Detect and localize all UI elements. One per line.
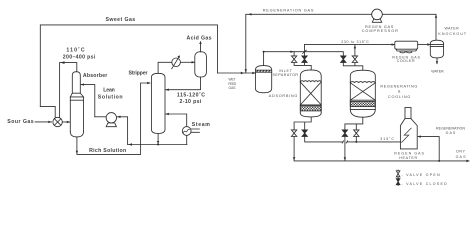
svg-text:HEATER: HEATER: [399, 156, 417, 160]
wire pump suction: [117, 116, 128, 145]
node steam label: [192, 122, 210, 128]
node hot header label: [341, 39, 369, 44]
svg-text:Sour Gas: Sour Gas: [7, 119, 33, 125]
node absorber label: [83, 73, 107, 79]
node 315C label: [380, 136, 394, 141]
valve V-1C open: [291, 130, 296, 137]
svg-text:KNOCKOUT: KNOCKOUT: [438, 32, 466, 36]
regen gas heater H1: [400, 107, 417, 148]
wire pump discharge: [95, 116, 106, 118]
svg-text:COOLING: COOLING: [388, 95, 411, 99]
svg-text:- VALVE OPEN: - VALVE OPEN: [402, 173, 440, 177]
node acid gas label: [187, 35, 212, 41]
valve V-1A open: [291, 56, 296, 63]
wire absorber overhead: [60, 61, 77, 117]
acid gas drum: [195, 52, 207, 77]
compressor K1: [372, 9, 383, 22]
node regeneration gas right label: [436, 127, 465, 135]
svg-text:Sweet Gas: Sweet Gas: [106, 17, 136, 23]
legend valve open symbol: [396, 170, 400, 178]
node adsorbing label: [269, 94, 298, 98]
node sour gas label: [7, 119, 33, 125]
wire sweet gas top line: [40, 25, 217, 107]
wire hot header riser tower1: [303, 45, 307, 56]
valve V-1D closed: [302, 130, 307, 137]
mixer: [53, 117, 62, 126]
wire rich solution line: [77, 82, 151, 155]
condenser E1: [172, 55, 181, 68]
wire regeneration gas recycle: [245, 13, 438, 73]
svg-text:Lean: Lean: [103, 88, 115, 94]
wire reboiler return: [165, 113, 186, 127]
pump P1: [106, 113, 116, 127]
valve V-2A closed: [341, 56, 346, 63]
wire condenser to acid gas drum: [180, 61, 194, 63]
wire tower1 bottom manifold: [294, 117, 311, 130]
wire mixer to absorber: [62, 121, 70, 123]
node compressor label: [362, 25, 398, 33]
wire dry gas line: [294, 160, 470, 163]
wire wet feed gas line: [218, 72, 256, 74]
svg-text:GAS: GAS: [456, 155, 466, 159]
svg-text:200–400 psi: 200–400 psi: [63, 54, 96, 60]
svg-text:REGENERATION GAS: REGENERATION GAS: [263, 9, 314, 13]
svg-text:GAS: GAS: [446, 131, 456, 135]
node inlet separator label: [273, 69, 299, 77]
svg-text:WATER: WATER: [431, 69, 444, 73]
valve V-2B open: [352, 56, 357, 63]
wire tower2 riser to hot header: [354, 45, 356, 56]
wire lean solution into absorber: [81, 83, 95, 116]
node operating conditions stripper: [177, 92, 205, 105]
wire steam connections: [191, 129, 199, 132]
wire tower2 open valve to regen feed: [355, 137, 357, 142]
valve V-2C closed: [342, 130, 347, 137]
wire water outlet: [436, 58, 438, 65]
wire recycle bracket to mixer: [40, 106, 55, 117]
svg-text:DRY: DRY: [456, 150, 465, 154]
svg-text:&: &: [398, 89, 401, 93]
wire regen gas to heater: [417, 135, 439, 161]
svg-text:315˚C: 315˚C: [380, 136, 394, 141]
steam heater E2: [182, 127, 191, 136]
node regenerating label: [380, 84, 417, 99]
wire tower2 closed drop to dry line: [344, 137, 346, 161]
wire stripper overhead: [158, 62, 172, 73]
node sweet gas label: [106, 17, 136, 23]
node regen gas cooler label: [392, 55, 420, 63]
wire reflux return: [165, 77, 200, 91]
svg-text:Rich Solution: Rich Solution: [89, 148, 126, 154]
svg-text:Stripper: Stripper: [129, 71, 148, 77]
svg-text:230 to 315˚C: 230 to 315˚C: [341, 39, 369, 44]
inlet separator V1: [255, 66, 271, 93]
svg-text:WATER: WATER: [445, 27, 460, 31]
node water label: [431, 69, 444, 73]
svg-text:Steam: Steam: [192, 122, 210, 128]
wire tower1 dry gas drop: [293, 137, 295, 161]
svg-text:COOLER: COOLER: [397, 59, 415, 63]
water knockout drum V2: [430, 40, 443, 58]
node stripper label: [129, 71, 148, 77]
wire tower1 top manifold: [294, 63, 311, 70]
node rich solution label: [89, 148, 126, 154]
regenerating tower T2: [350, 70, 375, 117]
svg-text:COMPRESSOR: COMPRESSOR: [362, 29, 398, 33]
stripper column: [151, 73, 165, 133]
node legend valve closed text: [402, 182, 448, 186]
svg-text:ADSORBING: ADSORBING: [269, 94, 298, 98]
absorber column: [70, 72, 83, 137]
node regen gas heater label: [394, 152, 424, 160]
node wet feed gas label: [228, 77, 237, 90]
adsorber tower T1: [300, 70, 321, 117]
wire wet gas header: [263, 51, 344, 66]
svg-text:115-120˚C: 115-120˚C: [177, 92, 205, 99]
legend valve closed symbol: [396, 178, 400, 185]
wire cooler outlet to knockout: [418, 43, 431, 45]
svg-text:110˚C: 110˚C: [66, 47, 84, 54]
svg-text:2-10 psi: 2-10 psi: [180, 99, 202, 105]
wire steam riser: [186, 135, 188, 144]
wire tower2 bottom manifold: [345, 117, 363, 130]
wire regen feed line 315C: [305, 137, 401, 144]
wire stripper bottoms outlet: [157, 133, 159, 145]
wire hot gas header: [305, 43, 396, 45]
svg-text:SEPARATOR: SEPARATOR: [273, 73, 299, 77]
valve V-2D open: [354, 130, 359, 137]
node regeneration gas top label: [263, 9, 314, 13]
svg-text:Absorber: Absorber: [83, 73, 107, 79]
wire tower2 top manifold: [343, 63, 363, 71]
node legend valve open text: [402, 173, 440, 177]
svg-text:REGENERATING: REGENERATING: [380, 84, 417, 88]
svg-text:Solution: Solution: [98, 94, 123, 100]
node operating conditions top: [63, 47, 96, 61]
wire lean bottoms line: [128, 143, 187, 145]
valve V-1B closed: [302, 56, 307, 63]
node dry gas label: [456, 150, 466, 159]
wire acid gas outlet: [199, 41, 201, 52]
svg-text:Acid Gas: Acid Gas: [187, 35, 212, 41]
svg-text:WET: WET: [229, 77, 236, 81]
node water knockout label: [438, 27, 466, 36]
svg-text:- VALVE CLOSED: - VALVE CLOSED: [402, 182, 448, 186]
regen gas cooler E3: [395, 41, 418, 53]
wire sour gas inlet: [35, 121, 52, 123]
wire rich solution from absorber: [76, 137, 78, 154]
svg-text:GAS: GAS: [229, 86, 237, 90]
node lean solution label: [98, 88, 123, 101]
